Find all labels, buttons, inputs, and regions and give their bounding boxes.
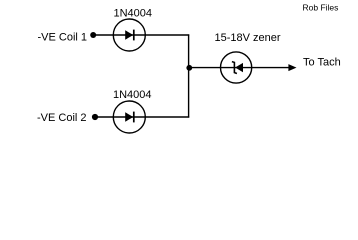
wire through D1 bbox=[113, 34, 145, 36]
wire D2 to bus bbox=[145, 116, 189, 118]
wire coil2 dot to D2 bbox=[95, 116, 114, 118]
diode D2 symbol bbox=[125, 112, 134, 123]
wire bus to zener bbox=[189, 67, 221, 69]
arrowhead to tach bbox=[288, 64, 296, 71]
wire D1 to bus bbox=[145, 34, 189, 36]
diode D1 circle bbox=[113, 19, 145, 51]
diode D2 circle bbox=[113, 101, 145, 133]
svg-text:15-18V zener: 15-18V zener bbox=[215, 32, 281, 44]
node coil 1 junction dot bbox=[90, 32, 96, 38]
wire zener to tach arrow bbox=[252, 67, 290, 69]
wire through D2 bbox=[113, 116, 145, 118]
svg-text:-VE Coil 2: -VE Coil 2 bbox=[37, 112, 87, 124]
node coil 2 junction dot bbox=[92, 114, 98, 120]
node bus junction dot bbox=[186, 65, 192, 71]
wire vertical bus bbox=[188, 34, 190, 117]
wire coil1 dot to D1 bbox=[93, 34, 114, 36]
svg-text:Rob Files: Rob Files bbox=[303, 3, 339, 13]
wire through zener bbox=[221, 67, 252, 69]
svg-text:1N4004: 1N4004 bbox=[113, 89, 152, 101]
diode D1 symbol bbox=[125, 30, 134, 41]
svg-text:1N4004: 1N4004 bbox=[114, 8, 153, 20]
zener D3 symbol bbox=[232, 62, 243, 74]
svg-text:To Tach: To Tach bbox=[303, 56, 341, 68]
zener D3 circle bbox=[221, 52, 252, 83]
svg-text:-VE Coil 1: -VE Coil 1 bbox=[38, 32, 88, 44]
